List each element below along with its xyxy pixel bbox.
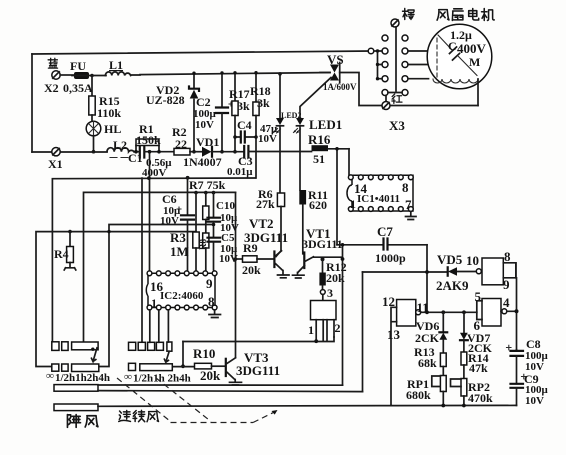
diode VD5 2AK9 xyxy=(448,267,457,275)
transistor VT2 xyxy=(273,252,275,268)
resistor R1 (parallel over C1) xyxy=(136,146,159,152)
svg-text:9: 9 xyxy=(503,277,510,292)
wire down from C7 rail to pin11 line xyxy=(426,245,428,312)
svg-text:2AK9: 2AK9 xyxy=(436,278,469,293)
svg-text:∞: ∞ xyxy=(46,370,54,382)
svg-text:C6: C6 xyxy=(162,192,177,206)
svg-text:0.01μ: 0.01μ xyxy=(227,166,253,178)
svg-text:VD1: VD1 xyxy=(196,135,219,149)
capacitor C1 xyxy=(140,146,145,158)
wire motor bottom to X3 line xyxy=(477,79,479,106)
capacitor C10 xyxy=(213,193,215,218)
timer block (pins 3,1,2) xyxy=(311,301,337,320)
terminal end circle on top wire xyxy=(368,48,374,54)
svg-text:R3: R3 xyxy=(170,230,186,245)
svg-text:8: 8 xyxy=(402,180,409,195)
lamp HL xyxy=(86,121,101,136)
svg-text:5: 5 xyxy=(475,289,482,304)
resistor R8 xyxy=(203,233,209,248)
motor capacitor 1.2u 400V diagonal xyxy=(438,35,477,76)
wires IC2 pins to bank2 xyxy=(150,310,169,342)
wire rail B corner down to VT3 xyxy=(235,193,237,358)
svg-text:C7: C7 xyxy=(377,224,393,239)
motor winding coil xyxy=(433,79,478,83)
svg-text:10V: 10V xyxy=(258,133,277,145)
IC2 4060 xyxy=(146,273,215,307)
wires X3 to motor xyxy=(408,51,429,79)
inductor L2 xyxy=(107,148,134,152)
dashed mechanical link lines xyxy=(117,378,171,422)
svg-text:4: 4 xyxy=(503,295,510,310)
wire C7 rail xyxy=(337,244,427,246)
svg-text:R16: R16 xyxy=(308,132,331,147)
terminal X2 xyxy=(52,71,60,79)
wire: down to IC1 pin14 xyxy=(348,149,350,176)
wire: bus corner down to C7 rail xyxy=(336,149,338,245)
svg-text:3k: 3k xyxy=(257,96,270,110)
X3 bottom row link xyxy=(386,93,402,102)
svg-text:R7 75k: R7 75k xyxy=(189,178,226,192)
wire long vertical to switch area xyxy=(342,245,344,385)
svg-text:FU: FU xyxy=(70,59,86,73)
resistor R10 xyxy=(181,364,185,368)
wire line A to switch xyxy=(141,178,143,343)
svg-text:X3: X3 xyxy=(389,118,405,133)
capacitor C8 xyxy=(516,350,518,351)
svg-text:VT2: VT2 xyxy=(249,216,274,231)
svg-text:UZ-828: UZ-828 xyxy=(146,93,185,107)
svg-text:68k: 68k xyxy=(418,356,437,370)
svg-text:C: C xyxy=(448,39,457,53)
diode VD7 2CK xyxy=(463,312,465,332)
svg-text:10V: 10V xyxy=(160,215,179,227)
svg-text:110k: 110k xyxy=(97,106,121,120)
label 阵风 xyxy=(67,415,80,428)
capacitor C6 xyxy=(186,176,190,180)
svg-text:3DG111: 3DG111 xyxy=(236,363,280,378)
gate G2 (pins 5,6,4) xyxy=(482,299,501,327)
capacitor C7 1000p xyxy=(384,239,388,250)
main bus (X1 net) xyxy=(32,151,107,153)
wire VS gate to LED1 xyxy=(300,78,331,119)
leg 1 xyxy=(316,320,323,341)
terminal X1 xyxy=(52,148,60,156)
svg-text:400V: 400V xyxy=(142,167,167,179)
IC1 4011 xyxy=(347,175,413,211)
wire: left border xyxy=(31,54,33,152)
resistor R15 xyxy=(89,96,95,115)
diode VD6 2CK xyxy=(442,312,444,332)
resistor R11 xyxy=(299,190,306,205)
switch bank 2 (continuous timer) xyxy=(129,342,136,350)
slider bar row1 xyxy=(72,342,99,350)
svg-text:L1: L1 xyxy=(109,58,123,72)
wire VD5 line xyxy=(363,271,477,274)
svg-text:2: 2 xyxy=(335,321,341,335)
gate G3 (pins 12,13,11) xyxy=(397,300,416,327)
svg-text:VD5: VD5 xyxy=(437,252,463,267)
switch contact squares row1 xyxy=(52,342,59,351)
X3 pin circles right column xyxy=(402,35,408,41)
capacitor C9 xyxy=(511,384,524,388)
svg-text:9: 9 xyxy=(206,276,213,291)
svg-text:51: 51 xyxy=(313,152,325,166)
wire rail C xyxy=(99,225,214,367)
svg-text:1: 1 xyxy=(350,197,356,211)
slider bar row2 xyxy=(72,364,99,372)
node: junction FU/R15 xyxy=(90,74,94,78)
svg-text:620: 620 xyxy=(309,198,327,212)
wire R15 column xyxy=(91,76,93,97)
svg-text:C8: C8 xyxy=(526,337,541,351)
resistor R18 xyxy=(255,73,257,102)
svg-text:10: 10 xyxy=(466,253,479,268)
transistor VT3 xyxy=(225,359,227,376)
LED2 xyxy=(278,72,282,76)
wires from bar1 xyxy=(98,384,343,386)
svg-text:X1: X1 xyxy=(48,157,63,171)
svg-text:IC1•4011: IC1•4011 xyxy=(357,193,400,205)
resistor R4 xyxy=(68,230,72,234)
ground at IC1 pin7 xyxy=(410,211,412,216)
terminal 棕 xyxy=(391,19,399,27)
resistor R2 (series) xyxy=(174,148,190,155)
wire bottom rail xyxy=(391,404,517,406)
capacitor C2 xyxy=(221,73,223,108)
switch contact squares row2 xyxy=(52,364,59,371)
wire: main top feed L1 to VS xyxy=(140,73,330,75)
svg-text:C4: C4 xyxy=(237,118,252,132)
resistor R16 xyxy=(312,145,329,151)
svg-text:LED1: LED1 xyxy=(309,117,342,132)
svg-text:2CK: 2CK xyxy=(415,331,440,345)
resistor R14 xyxy=(461,352,467,365)
svg-text:400V: 400V xyxy=(457,41,487,56)
svg-text:C10: C10 xyxy=(216,200,235,212)
svg-text:20k: 20k xyxy=(200,368,221,383)
svg-text:X2: X2 xyxy=(44,81,59,95)
pulse slider bar 1 xyxy=(54,385,98,392)
svg-text:C2: C2 xyxy=(196,95,211,109)
svg-text:3: 3 xyxy=(327,286,333,300)
svg-text:22: 22 xyxy=(175,137,187,151)
svg-text:1: 1 xyxy=(308,323,314,337)
svg-text:0,35A: 0,35A xyxy=(63,81,93,95)
wiper arrow bank1 xyxy=(92,348,98,362)
svg-text:1000p: 1000p xyxy=(375,251,406,265)
svg-text:10V: 10V xyxy=(525,395,544,407)
svg-text:47k: 47k xyxy=(469,361,488,375)
wire right column xyxy=(515,263,518,350)
fuse FU xyxy=(74,72,89,79)
svg-text:1N4007: 1N4007 xyxy=(183,155,222,169)
potentiometer RP1 xyxy=(440,376,446,392)
pulse slider bar 2 xyxy=(54,404,98,411)
svg-text:27k: 27k xyxy=(256,197,275,211)
svg-text:R10: R10 xyxy=(193,346,215,361)
svg-text:680k: 680k xyxy=(406,388,431,402)
capacitor C4 xyxy=(235,136,256,138)
wire rail D (R4 rail) xyxy=(36,232,196,367)
svg-text:1M: 1M xyxy=(170,244,189,259)
pin 3 of timer block xyxy=(320,290,325,295)
wire X2 to FU xyxy=(60,74,74,76)
svg-text:1: 1 xyxy=(151,296,157,310)
resistor R13 xyxy=(440,353,446,367)
svg-text:1/2h1h2h4h: 1/2h1h2h4h xyxy=(55,372,110,384)
resistor R17 xyxy=(234,73,236,101)
svg-text:10V: 10V xyxy=(195,119,214,131)
wire rail B xyxy=(84,192,236,342)
svg-text:HL: HL xyxy=(104,122,121,136)
label 蓝 xyxy=(48,58,57,68)
svg-text:L2: L2 xyxy=(113,138,127,152)
ground at IC2 pin8 xyxy=(214,310,216,314)
svg-text:IC2:4060: IC2:4060 xyxy=(160,290,204,302)
leg 2 xyxy=(327,320,334,341)
svg-text:470k: 470k xyxy=(468,391,493,405)
svg-text:3DG111: 3DG111 xyxy=(244,230,288,245)
wire corner down to pulse bar xyxy=(362,272,364,392)
svg-text:8: 8 xyxy=(208,294,215,309)
motor 风扇电机 xyxy=(437,10,449,21)
resistor R9 xyxy=(234,257,238,261)
wire legs to R10 branch xyxy=(183,337,334,342)
resistor R12 xyxy=(321,257,325,261)
wire: outer top line (X1 net to X3) xyxy=(32,51,372,54)
transistor VT1 xyxy=(303,253,305,269)
svg-text:1A/600V: 1A/600V xyxy=(323,82,357,92)
capacitor C5 xyxy=(208,238,221,242)
resistor R3 xyxy=(195,193,197,232)
X3 pin circles left column xyxy=(382,35,388,41)
resistor R7 xyxy=(194,191,198,195)
diode VD1 1N4007 xyxy=(202,147,212,157)
svg-text:M: M xyxy=(469,55,480,69)
svg-text:8: 8 xyxy=(504,249,511,264)
selector stub wires xyxy=(374,51,382,79)
wire C1 node down (line B1) xyxy=(149,152,151,271)
wire pin11 node line xyxy=(421,311,477,313)
svg-text:R4: R4 xyxy=(54,247,69,261)
slider bar bank2 xyxy=(140,364,173,371)
capacitor C3 (series on bus) xyxy=(244,146,248,158)
svg-text:150k: 150k xyxy=(136,133,161,147)
svg-text:7: 7 xyxy=(405,197,412,212)
svg-text:1/2h1h 2h4h: 1/2h1h 2h4h xyxy=(133,373,191,385)
inductor L1 xyxy=(92,74,140,77)
svg-text:20k: 20k xyxy=(242,263,261,277)
svg-text:∞: ∞ xyxy=(124,371,132,383)
label 连续风 xyxy=(119,411,131,422)
potentiometer RP2 xyxy=(461,379,467,397)
LED1 xyxy=(296,118,304,125)
svg-text:13: 13 xyxy=(387,327,401,342)
wire from bar2 (bottom rail) xyxy=(98,405,391,408)
terminal X3 (red) xyxy=(382,102,390,110)
resistor R6 xyxy=(277,193,284,207)
wire rail A (top DC rail) xyxy=(52,178,254,342)
motor internal dashed lead xyxy=(436,38,438,78)
zener diode VD2 UZ-828 xyxy=(193,73,195,88)
wiper arrow bank2 xyxy=(164,351,169,362)
svg-text:3k: 3k xyxy=(237,99,250,113)
